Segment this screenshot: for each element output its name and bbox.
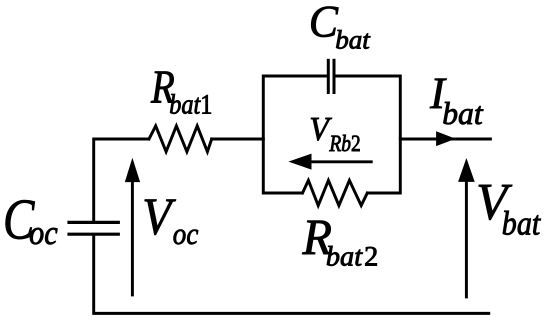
arrow line V_Rb2 xyxy=(305,160,371,163)
wire: top-left corner (horizontal from R_bat1 to corner, down to C_oc) xyxy=(94,139,149,221)
arrowhead I_bat xyxy=(436,131,456,146)
capacitor C_oc plates xyxy=(69,221,118,224)
svg-text:bat: bat xyxy=(442,96,484,131)
wire: box right side (top edge right part, right edge, bottom edge right part) xyxy=(335,76,400,193)
svg-text:bat: bat xyxy=(335,25,370,55)
svg-text:Rb2: Rb2 xyxy=(329,131,361,157)
svg-text:V: V xyxy=(142,188,176,246)
resistor R_bat2 xyxy=(303,180,368,205)
svg-text:oc: oc xyxy=(173,217,199,251)
capacitor C_bat plates xyxy=(327,60,330,92)
svg-text:oc: oc xyxy=(29,215,58,252)
wire: R_bat1 to box xyxy=(212,138,264,141)
wire: box to right terminal xyxy=(400,138,490,141)
svg-text:bat1: bat1 xyxy=(169,90,212,121)
svg-text:bat2: bat2 xyxy=(326,242,378,273)
arrowhead V_oc xyxy=(125,158,140,182)
arrow line V_oc xyxy=(131,177,134,295)
resistor R_bat1 xyxy=(149,126,212,152)
wire: left vertical lower + bottom horizontal xyxy=(94,235,491,314)
arrowhead V_Rb2 xyxy=(288,154,311,170)
arrow line V_bat xyxy=(465,176,468,297)
wire: box left side (top edge left part, left edge, bottom edge left part) xyxy=(263,76,327,193)
svg-text:bat: bat xyxy=(502,206,542,243)
arrowhead V_bat xyxy=(458,158,475,182)
